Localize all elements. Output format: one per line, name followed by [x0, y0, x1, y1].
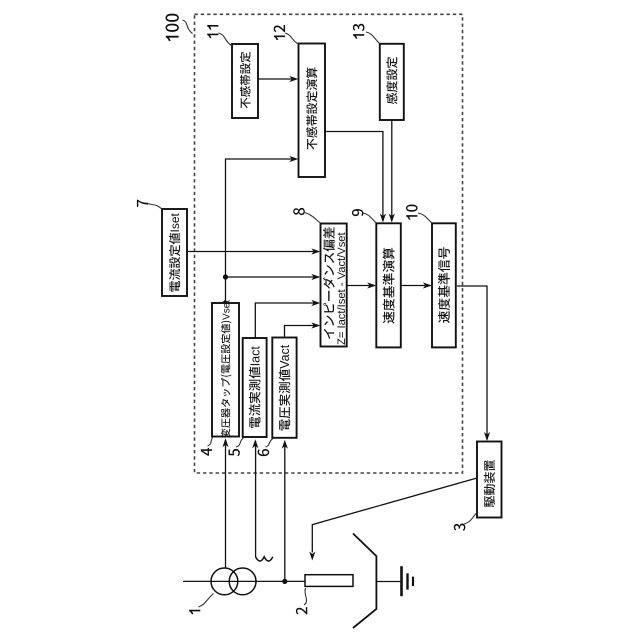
wire box7 Iset to box8	[187, 251, 318, 253]
ground symbol	[400, 566, 403, 596]
svg-text:Vact: Vact	[278, 344, 292, 369]
svg-text:Iact: Iact	[248, 346, 262, 367]
box 8 impedance deviation	[321, 224, 347, 347]
wire Vset line from box4 up to box12	[226, 159, 297, 303]
svg-text:Vset: Vset	[221, 300, 232, 320]
CT pickup squiggle and wire to box5	[256, 557, 273, 561]
furnace wall polyline	[353, 534, 376, 629]
box 12 dead-band setting calculation	[299, 44, 326, 178]
box 5 current measured value Iact	[243, 338, 267, 437]
label 13 with leader	[353, 24, 365, 39]
box 11 dead-band setting	[232, 44, 258, 118]
box 10 speed reference signal	[432, 223, 456, 347]
wire transformer tap to box4	[225, 440, 227, 568]
box 4 transformer tap (voltage setting value) Vset	[212, 303, 239, 437]
box 6 voltage measured value Vact	[272, 338, 296, 438]
box 9 speed reference calculation	[376, 223, 401, 347]
wire box10 to box3 drive device	[457, 286, 487, 440]
label 9 with leader	[352, 209, 364, 216]
power feed line through transformer	[183, 580, 305, 582]
label 4 with leader	[201, 448, 212, 456]
label 11 with leader	[207, 25, 218, 38]
label 2 with leader	[296, 607, 307, 614]
wire box9 to box10	[401, 285, 431, 287]
label 12 with leader	[274, 25, 285, 40]
wire box5 Iact to box8	[255, 303, 318, 338]
junction dot on Vset line	[223, 274, 228, 279]
wire Vset dot to box8	[226, 276, 319, 278]
label 5 with leader	[228, 449, 239, 456]
junction dot on power line	[282, 579, 287, 584]
wire box3 to electrode actuator arrow	[312, 478, 477, 553]
wire box12 output down to box9	[325, 132, 383, 222]
wire furnace to ground	[376, 581, 400, 583]
box 3 drive device	[477, 442, 502, 518]
label 10 with leader	[406, 205, 418, 220]
label 3 with leader	[454, 524, 466, 531]
wire voltage tap to box6	[284, 442, 286, 582]
transformer 1 (two circles)	[211, 568, 238, 595]
wire box13 output down to box9	[391, 120, 393, 221]
box 7 current setting value Iset	[162, 209, 187, 296]
wire box8 to box9	[346, 285, 374, 287]
svg-text:Z= Iact/Iset - Vact/Vset: Z= Iact/Iset - Vact/Vset	[336, 231, 348, 345]
label 6 with leader	[258, 449, 270, 456]
electrode 2 (rectangle)	[305, 575, 353, 587]
label 1 with leader	[189, 610, 200, 615]
svg-text:Iset: Iset	[168, 212, 182, 232]
box 13 sensitivity setting	[380, 44, 404, 120]
label 8 with leader	[293, 208, 305, 215]
wire box6 Vact to box8	[285, 326, 319, 338]
label 100 with leader	[166, 14, 179, 41]
wire box11 to box12	[258, 78, 296, 80]
label 7 with leader	[137, 200, 148, 207]
dashed system boundary box 100	[195, 14, 463, 473]
